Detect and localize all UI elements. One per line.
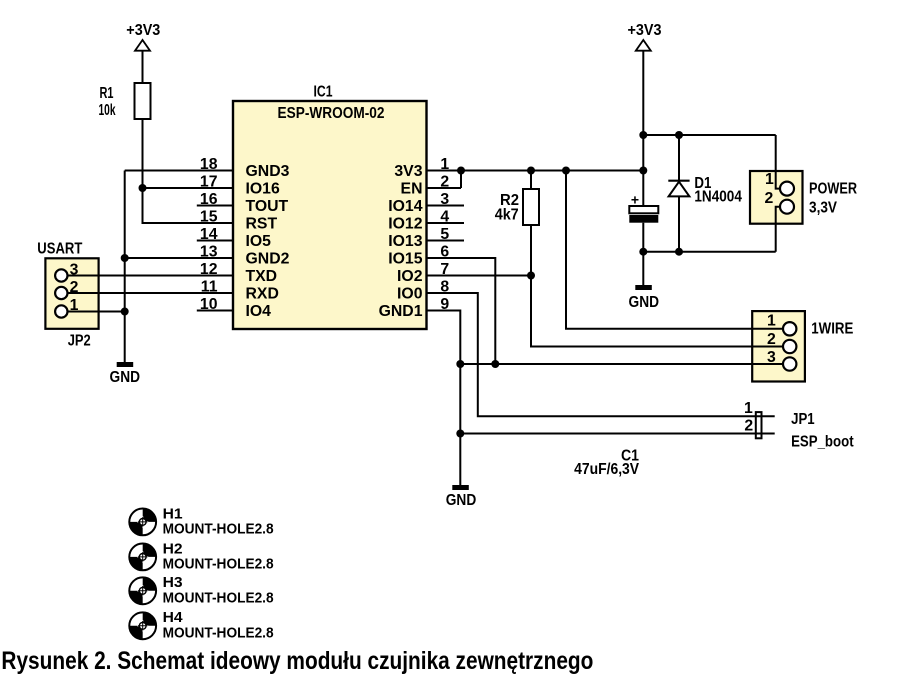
svg-text:3: 3 [767, 349, 776, 366]
svg-text:IO4: IO4 [246, 303, 272, 320]
svg-text:14: 14 [200, 226, 218, 243]
svg-text:GND1: GND1 [379, 303, 423, 320]
svg-text:IO2: IO2 [397, 268, 423, 285]
svg-text:3,3V: 3,3V [809, 199, 837, 216]
svg-text:1: 1 [440, 156, 449, 173]
svg-text:ESP_boot: ESP_boot [791, 433, 854, 450]
svg-text:1: 1 [70, 297, 79, 314]
svg-text:H1: H1 [163, 506, 183, 522]
svg-text:TXD: TXD [246, 268, 278, 285]
svg-text:R1: R1 [100, 85, 114, 102]
svg-text:GND: GND [446, 492, 477, 509]
svg-text:1: 1 [767, 313, 776, 330]
svg-text:TOUT: TOUT [246, 198, 289, 215]
svg-text:GND: GND [629, 294, 660, 311]
svg-text:MOUNT-HOLE2.8: MOUNT-HOLE2.8 [163, 590, 274, 606]
svg-text:2: 2 [765, 190, 774, 207]
svg-text:4k7: 4k7 [495, 206, 519, 223]
svg-text:2: 2 [70, 279, 79, 296]
svg-text:H2: H2 [163, 541, 183, 557]
svg-text:10k: 10k [99, 102, 116, 119]
svg-text:ESP-WROOM-02: ESP-WROOM-02 [278, 105, 385, 122]
svg-text:1: 1 [744, 400, 753, 417]
svg-text:GND2: GND2 [246, 250, 290, 267]
svg-text:17: 17 [200, 174, 218, 191]
svg-text:+3V3: +3V3 [628, 22, 662, 39]
svg-text:16: 16 [200, 191, 218, 208]
svg-text:4: 4 [440, 209, 449, 226]
svg-text:H4: H4 [163, 610, 183, 626]
svg-text:7: 7 [440, 261, 449, 278]
svg-text:5: 5 [440, 226, 449, 243]
svg-text:GND3: GND3 [246, 163, 290, 180]
svg-text:JP1: JP1 [791, 411, 815, 428]
svg-text:47uF/6,3V: 47uF/6,3V [574, 461, 639, 478]
svg-text:IO15: IO15 [388, 250, 422, 267]
svg-text:MOUNT-HOLE2.8: MOUNT-HOLE2.8 [163, 556, 274, 572]
svg-text:2: 2 [744, 418, 753, 435]
svg-text:15: 15 [200, 209, 218, 226]
svg-text:IO5: IO5 [246, 233, 272, 250]
svg-text:+: + [631, 192, 639, 208]
svg-text:11: 11 [201, 279, 218, 296]
svg-text:IC1: IC1 [314, 84, 333, 101]
svg-text:3: 3 [440, 191, 449, 208]
svg-text:12: 12 [200, 261, 218, 278]
svg-text:IO0: IO0 [397, 285, 423, 302]
svg-text:3V3: 3V3 [394, 163, 422, 180]
svg-text:1N4004: 1N4004 [694, 189, 742, 206]
svg-text:RST: RST [246, 215, 278, 232]
svg-text:RXD: RXD [246, 285, 279, 302]
svg-text:USART: USART [37, 241, 82, 258]
svg-text:2: 2 [440, 174, 449, 191]
svg-text:IO13: IO13 [388, 233, 422, 250]
svg-text:13: 13 [200, 244, 218, 261]
svg-text:IO14: IO14 [388, 198, 422, 215]
svg-text:8: 8 [440, 279, 449, 296]
svg-text:9: 9 [440, 296, 449, 313]
svg-text:10: 10 [200, 296, 218, 313]
svg-text:Rysunek 2. Schemat ideowy modu: Rysunek 2. Schemat ideowy modułu czujnik… [1, 647, 593, 675]
svg-text:1WIRE: 1WIRE [811, 321, 853, 338]
svg-text:6: 6 [440, 244, 449, 261]
svg-text:MOUNT-HOLE2.8: MOUNT-HOLE2.8 [163, 521, 274, 537]
svg-text:IO12: IO12 [388, 215, 422, 232]
svg-text:H3: H3 [163, 575, 183, 591]
svg-text:IO16: IO16 [246, 180, 280, 197]
svg-text:2: 2 [767, 331, 776, 348]
svg-text:+3V3: +3V3 [126, 22, 160, 39]
svg-text:EN: EN [401, 180, 423, 197]
svg-text:MOUNT-HOLE2.8: MOUNT-HOLE2.8 [163, 625, 274, 641]
svg-text:POWER: POWER [809, 180, 857, 197]
svg-text:3: 3 [70, 262, 79, 279]
svg-text:JP2: JP2 [68, 333, 91, 350]
svg-text:18: 18 [200, 156, 218, 173]
svg-text:1: 1 [765, 171, 774, 188]
svg-text:GND: GND [110, 369, 141, 386]
